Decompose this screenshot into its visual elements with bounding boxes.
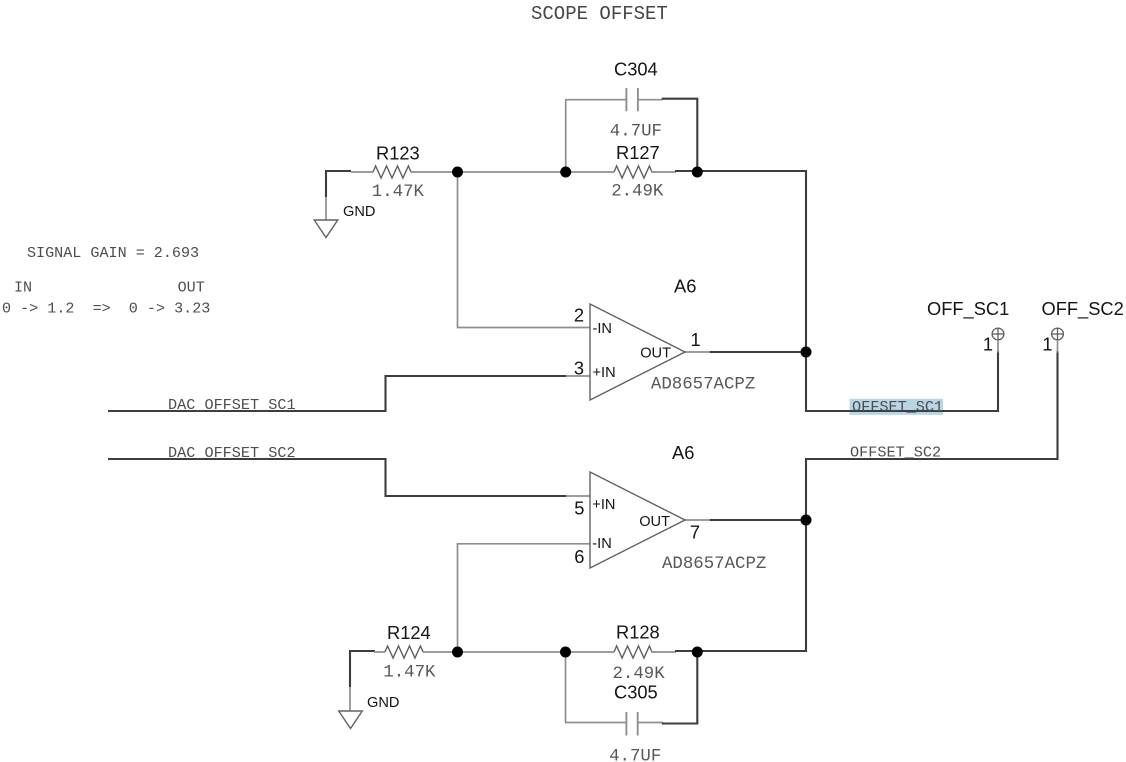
- svg-text:OUT: OUT: [640, 345, 671, 361]
- svg-text:SIGNAL GAIN = 2.693: SIGNAL GAIN = 2.693: [27, 244, 199, 262]
- svg-text:AD8657ACPZ: AD8657ACPZ: [651, 376, 755, 395]
- svg-text:2: 2: [574, 305, 584, 326]
- svg-text:0 -> 1.2 => 0 -> 3.23: 0 -> 1.2 => 0 -> 3.23: [2, 299, 210, 317]
- svg-text:1: 1: [691, 329, 701, 350]
- svg-text:C305: C305: [614, 682, 658, 703]
- svg-text:5: 5: [574, 497, 584, 518]
- svg-text:2.49K: 2.49K: [611, 182, 664, 201]
- svg-text:R127: R127: [616, 142, 660, 163]
- svg-text:DAC_OFFSET_SC2: DAC_OFFSET_SC2: [168, 444, 296, 462]
- svg-text:1: 1: [983, 334, 993, 355]
- svg-text:2.49K: 2.49K: [613, 665, 666, 684]
- svg-text:4.7UF: 4.7UF: [610, 123, 662, 142]
- svg-text:3: 3: [574, 357, 584, 378]
- svg-text:OFF_SC1: OFF_SC1: [927, 298, 1009, 320]
- svg-text:1.47K: 1.47K: [372, 183, 425, 202]
- svg-text:AD8657ACPZ: AD8657ACPZ: [662, 555, 766, 574]
- svg-text:1: 1: [1042, 334, 1052, 355]
- svg-text:SCOPE OFFSET: SCOPE OFFSET: [531, 3, 668, 25]
- svg-text:C304: C304: [614, 59, 658, 80]
- svg-text:-IN: -IN: [592, 536, 611, 552]
- svg-text:7: 7: [690, 522, 700, 543]
- svg-text:OUT: OUT: [178, 278, 205, 296]
- svg-text:OUT: OUT: [639, 514, 670, 530]
- svg-text:A6: A6: [674, 276, 696, 297]
- svg-text:6: 6: [574, 546, 584, 567]
- svg-text:IN: IN: [14, 278, 32, 296]
- svg-text:R123: R123: [376, 143, 420, 164]
- svg-text:-IN: -IN: [593, 321, 612, 337]
- svg-text:R128: R128: [616, 622, 660, 643]
- svg-text:A6: A6: [672, 442, 694, 463]
- svg-text:GND: GND: [367, 695, 399, 711]
- svg-text:1.47K: 1.47K: [383, 664, 436, 683]
- svg-text:+IN: +IN: [592, 497, 615, 513]
- svg-text:DAC_OFFSET_SC1: DAC_OFFSET_SC1: [168, 396, 296, 414]
- svg-text:R124: R124: [387, 622, 431, 643]
- svg-text:4.7UF: 4.7UF: [609, 748, 661, 762]
- svg-text:OFFSET_SC1: OFFSET_SC1: [852, 398, 943, 416]
- svg-text:+IN: +IN: [593, 365, 616, 381]
- svg-text:GND: GND: [343, 204, 375, 220]
- svg-text:OFF_SC2: OFF_SC2: [1042, 298, 1124, 320]
- svg-text:OFFSET_SC2: OFFSET_SC2: [850, 444, 941, 462]
